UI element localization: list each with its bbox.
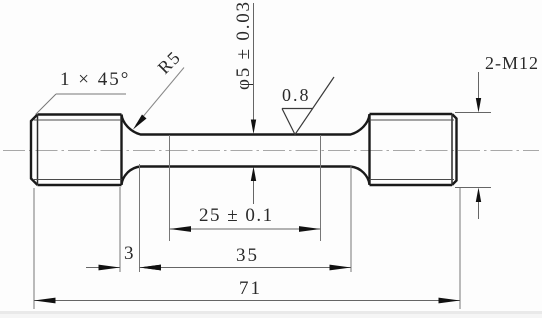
- 71 dimension line: [34, 300, 460, 302]
- phi5 lower stem: [253, 180, 255, 204]
- svg-text:3: 3: [124, 243, 134, 264]
- svg-text:1 × 45°: 1 × 45°: [60, 69, 130, 90]
- phi5 upper dimension line: [253, 3, 255, 121]
- 35 dimension line: [140, 267, 352, 269]
- 25 right arrow: [299, 226, 321, 232]
- 35 right arrow: [330, 265, 352, 271]
- 3 left tail line: [86, 267, 120, 269]
- centerline: [3, 150, 539, 152]
- 2-M12 upper stem: [478, 72, 480, 99]
- R5 arrowhead: [133, 115, 147, 130]
- 3 right outside arrow: [140, 265, 162, 271]
- roughness 0.8 symbol: [282, 77, 334, 135]
- 71 extension line left: [33, 188, 35, 309]
- left grip block outline: [31, 115, 122, 186]
- fillet and gauge rod top: [122, 115, 370, 135]
- 3 right tail line: [140, 267, 170, 269]
- right grip block outline: [370, 114, 457, 185]
- 3 extension line: [119, 187, 121, 272]
- 35 extension line left: [139, 164, 141, 272]
- 2-M12 upper arrow: [476, 98, 481, 113]
- chamfer leader underline: [56, 93, 126, 95]
- 35 extension line right: [350, 165, 352, 272]
- right chamfer face line: [451, 114, 453, 185]
- svg-text:0.8: 0.8: [282, 85, 311, 105]
- 71 left arrow: [34, 298, 56, 304]
- phi5 lower arrow: [251, 167, 256, 182]
- 71 right arrow: [439, 298, 461, 304]
- 2-M12 extension line bottom: [455, 187, 491, 189]
- svg-text:R5: R5: [154, 47, 185, 78]
- 35 left arrow: [140, 265, 162, 271]
- right thread minor lines: [370, 120, 455, 180]
- 25 dimension line: [170, 228, 321, 230]
- left thread minor lines: [34, 120, 122, 180]
- 71 extension line right: [459, 188, 461, 309]
- 2-M12 lower arrow: [476, 188, 481, 203]
- 25 extension line right: [320, 135, 322, 241]
- 2-M12 lower stem: [478, 201, 480, 219]
- svg-text:35: 35: [236, 245, 259, 266]
- 2-M12 extension line top: [455, 112, 491, 114]
- bottom edge smear: [0, 311, 542, 314]
- svg-text:71: 71: [239, 278, 262, 299]
- chamfer leader: [36, 94, 57, 115]
- 25 extension line left: [169, 135, 171, 241]
- 25 left arrow: [170, 226, 192, 232]
- phi5 upper arrow: [251, 120, 256, 135]
- left chamfer face line: [37, 115, 39, 186]
- 3 left outside arrow: [99, 265, 121, 271]
- R5 leader: [136, 68, 184, 126]
- svg-text:2-M12: 2-M12: [485, 53, 539, 73]
- svg-text:φ5 ± 0.03: φ5 ± 0.03: [233, 0, 254, 90]
- svg-text:25 ± 0.1: 25 ± 0.1: [199, 205, 274, 226]
- fillet and gauge rod bottom: [122, 167, 370, 185]
